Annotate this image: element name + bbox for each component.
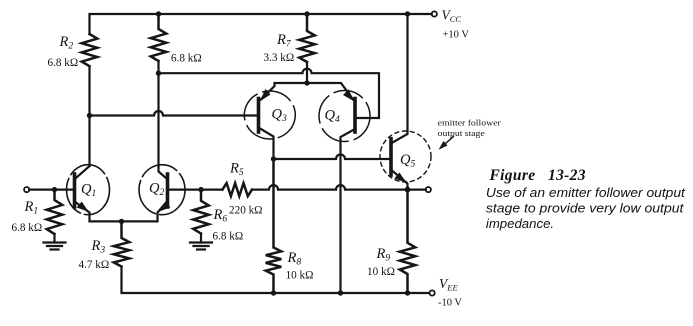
svg-text:output stage: output stage (438, 128, 485, 138)
svg-text:Q5: Q5 (400, 152, 415, 170)
node junction R4 top on rail (156, 11, 161, 16)
transistor Q5 (380, 14, 431, 190)
svg-text:VEE: VEE (439, 276, 458, 293)
svg-text:6.8 kΩ: 6.8 kΩ (213, 231, 244, 243)
wire input to Q1 base (29, 189, 74, 191)
svg-text:R8: R8 (287, 250, 302, 268)
resistor R9 (400, 190, 416, 293)
svg-text:R1: R1 (24, 199, 39, 217)
svg-text:+10 V: +10 V (443, 30, 470, 41)
annotation arrow to Q5 (439, 137, 454, 150)
transistor Q1 (67, 165, 122, 222)
node junction Q3-collector/Q5-base (271, 156, 276, 161)
svg-text:R9: R9 (376, 246, 391, 264)
wire R2/Q1-collector to Q3 base with hop over R4 line (90, 111, 259, 116)
svg-text:impedance.: impedance. (486, 216, 554, 231)
resistor R4 (6.8 k) (151, 14, 167, 61)
svg-text:Q1: Q1 (81, 182, 96, 200)
resistor R8 (266, 159, 282, 293)
svg-text:220 kΩ: 220 kΩ (229, 205, 263, 217)
svg-text:3.3 kΩ: 3.3 kΩ (264, 52, 295, 64)
wire R4 bottom to Q2 collector (157, 61, 159, 166)
transistor Q4 (307, 83, 370, 293)
resistor R7 (299, 14, 315, 62)
wire R7 bottom to emitter bus (306, 62, 308, 83)
svg-text:VCC: VCC (442, 8, 462, 25)
svg-text:emitter follower: emitter follower (438, 118, 501, 128)
svg-text:R3: R3 (91, 238, 106, 256)
svg-text:Figure 13-23: Figure 13-23 (489, 167, 586, 184)
ground (R1) (44, 243, 66, 250)
svg-text:stage to provide very low outp: stage to provide very low output (486, 201, 685, 216)
wire Q2-collector to Q4-base route with hop over R7 (159, 69, 380, 118)
svg-text:10 kΩ: 10 kΩ (367, 266, 395, 278)
node junction R7 top on rail (304, 11, 309, 16)
wire Q3 collector to Q5 base with hop over Q4 collector (274, 155, 392, 160)
wire top supply rail Vcc (90, 14, 432, 34)
node junction Q4 collector on rail (338, 290, 343, 295)
svg-text:6.8 kΩ: 6.8 kΩ (12, 222, 43, 234)
svg-text:Q4: Q4 (325, 108, 340, 126)
node junction input/R1 (52, 187, 57, 192)
terminal Vcc (432, 11, 437, 16)
transistor Q2 (122, 165, 186, 222)
resistor R6 (193, 190, 209, 234)
svg-text:-10 V: -10 V (438, 298, 462, 309)
svg-text:4.7 kΩ: 4.7 kΩ (79, 259, 110, 271)
svg-text:R2: R2 (59, 34, 74, 52)
ground (R6) (190, 243, 212, 250)
svg-text:10 kΩ: 10 kΩ (286, 270, 314, 282)
wire R2 bottom to Q1 collector (88, 66, 90, 166)
wire bottom supply rail VEE (122, 267, 430, 294)
node junction R8 on rail (271, 290, 276, 295)
terminal VEE (430, 290, 435, 295)
wire R6 to ground (200, 234, 202, 243)
node junction Q2-base/R6 (198, 187, 203, 192)
output terminal (426, 187, 431, 192)
node junction R9 on rail (405, 290, 410, 295)
wire Q2 base to R5 and output line with hops (168, 185, 426, 190)
node junction common emitters / R3 (119, 219, 124, 224)
svg-text:R7: R7 (276, 32, 292, 50)
transistor Q3 (244, 83, 307, 159)
svg-text:6.8 kΩ: 6.8 kΩ (48, 57, 79, 69)
resistor R3 (114, 221, 130, 266)
svg-text:6.8 kΩ: 6.8 kΩ (171, 53, 202, 65)
svg-text:Use of an emitter follower out: Use of an emitter follower output (486, 185, 686, 200)
svg-text:Q3: Q3 (272, 107, 287, 125)
node junction Q5 emitter / R9 / output (405, 187, 411, 193)
svg-text:Q2: Q2 (149, 181, 164, 199)
node junction Q5 collector on rail (405, 11, 410, 16)
wire R1 to ground (53, 234, 55, 243)
svg-text:R5: R5 (229, 161, 244, 179)
input terminal (24, 187, 29, 192)
node junction R4/Q4-base route (156, 71, 161, 76)
node junction R2/Q3-base (87, 113, 92, 118)
resistor R5 (222, 183, 252, 196)
svg-text:R6: R6 (213, 207, 228, 225)
resistor R1 (47, 190, 63, 234)
node junction R7/emitter bus (304, 80, 309, 85)
resistor R2 (82, 34, 98, 66)
